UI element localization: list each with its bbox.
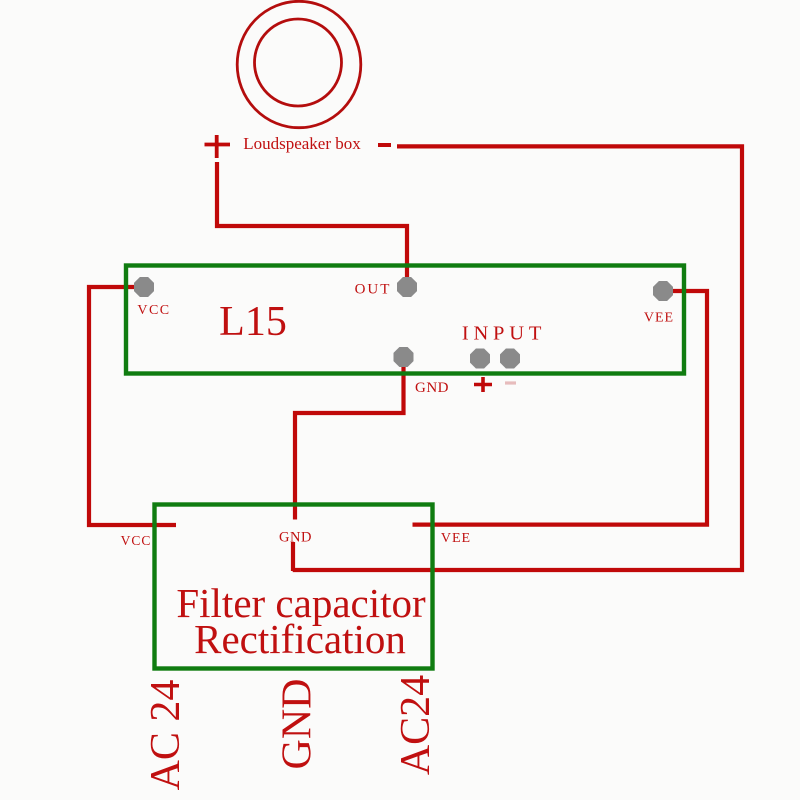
svg-text:AC24: AC24 [393, 675, 439, 775]
pad VCC on L15 [134, 277, 154, 297]
wire: GND pad down to filter board GND [295, 357, 404, 520]
wire: loudspeaker + to OUT pad [217, 162, 407, 287]
amplifier board L15 outline [126, 266, 684, 374]
svg-text:VCC: VCC [121, 533, 152, 548]
pad GND on L15 [394, 347, 414, 367]
svg-text:GND: GND [279, 530, 312, 546]
svg-text:VEE: VEE [644, 311, 674, 326]
filter board outline [155, 505, 433, 669]
wire: VCC pad to filter board VCC [89, 287, 176, 525]
svg-text:VEE: VEE [441, 531, 471, 546]
pad INPUT + on L15 [470, 349, 490, 369]
svg-text:OUT: OUT [355, 282, 392, 298]
svg-text:Rectification: Rectification [194, 616, 406, 662]
loudspeaker + terminal [205, 135, 231, 158]
label - for INPUT (faint) [505, 381, 516, 384]
wire: VEE pad to filter board VEE [413, 291, 708, 525]
loudspeaker LS1 outer ring [237, 1, 361, 127]
svg-text:VCC: VCC [137, 303, 170, 318]
svg-text:GND: GND [415, 380, 449, 396]
svg-text:AC 24: AC 24 [143, 680, 189, 791]
label + for INPUT [474, 377, 492, 392]
svg-text:INPUT: INPUT [462, 323, 546, 345]
svg-text:L15: L15 [219, 299, 287, 345]
wire: loudspeaker - down right side to GND rail [293, 146, 742, 570]
pad VEE on L15 [653, 281, 673, 301]
svg-text:Loudspeaker box: Loudspeaker box [243, 134, 361, 153]
loudspeaker - terminal [378, 143, 391, 147]
pad OUT on L15 [397, 277, 417, 297]
loudspeaker LS1 inner ring [255, 19, 342, 106]
wire: GND label to loudspeaker - rail [291, 542, 295, 571]
pad INPUT - on L15 [500, 349, 520, 369]
svg-text:GND: GND [275, 679, 321, 770]
